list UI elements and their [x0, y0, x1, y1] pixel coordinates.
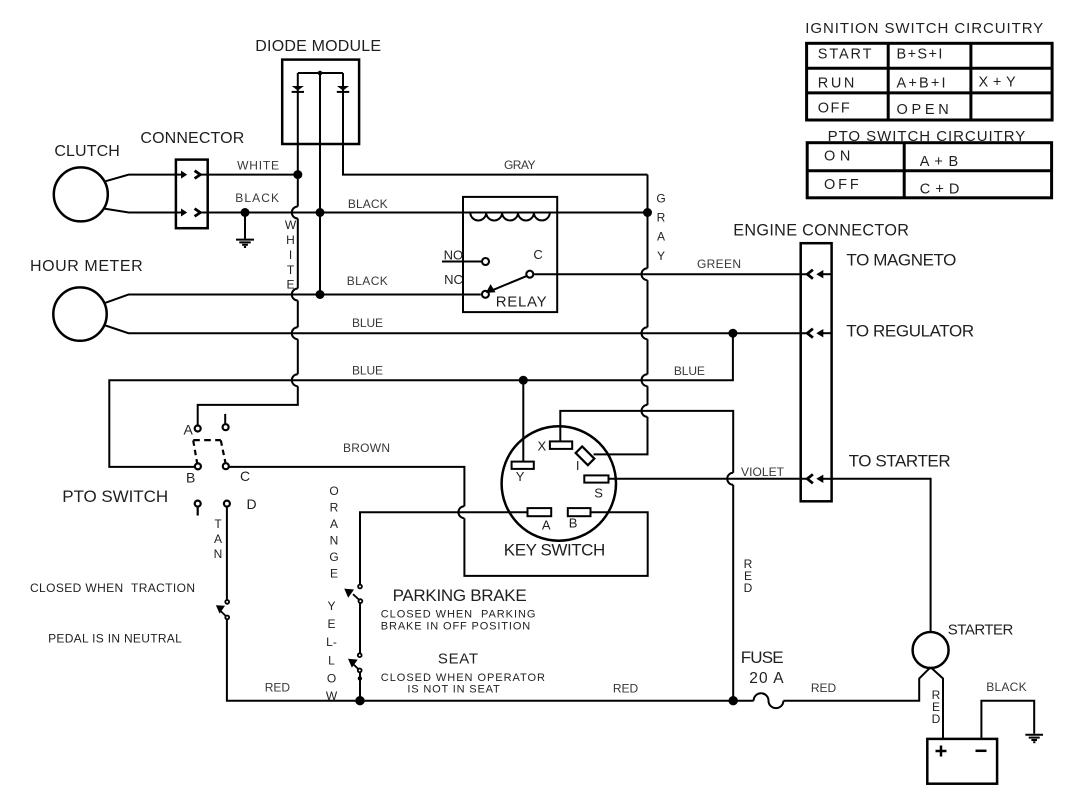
svg-text:GREEN: GREEN: [697, 257, 741, 271]
key terminal A: [528, 508, 552, 516]
wirelabel RED vertical fuse: [744, 557, 753, 595]
diode D2: [337, 86, 349, 93]
node black/diode mid: [316, 208, 325, 217]
svg-text:20 A: 20 A: [749, 670, 784, 687]
svg-text:Y: Y: [516, 469, 525, 484]
relay coil: [470, 213, 550, 221]
svg-text:B: B: [569, 516, 578, 531]
wire fuse to starter: [783, 667, 930, 701]
wire relay NO stub: [442, 261, 481, 263]
wire relay C to GREEN: [534, 273, 807, 275]
wire battery minus to ground: [981, 701, 1034, 739]
wire hour meter bottom lead / BLUE to regulator: [104, 325, 807, 333]
svg-text:PEDAL IS IN NEUTRAL: PEDAL IS IN NEUTRAL: [48, 632, 182, 646]
svg-text:L: L: [328, 654, 335, 668]
svg-text:BLACK: BLACK: [235, 191, 279, 205]
svg-text:C + D: C + D: [920, 182, 960, 198]
svg-text:GRAY: GRAY: [504, 158, 536, 172]
table cells pto: [824, 149, 959, 198]
connector box: [176, 160, 208, 229]
wire starter to battery plus: [931, 667, 943, 739]
ground symbol left: [236, 240, 254, 247]
svg-text:NC: NC: [444, 272, 463, 287]
JUNCTION-DOTS: [241, 71, 738, 706]
PTO arm C dashed: [221, 440, 226, 462]
svg-text:X+Y: X+Y: [979, 75, 1017, 91]
PTO terminal D: [224, 501, 230, 507]
svg-text:CLUTCH: CLUTCH: [54, 143, 119, 160]
wire violet through connector to starter: [832, 479, 931, 633]
svg-text:RED: RED: [811, 681, 837, 695]
svg-text:WHITE: WHITE: [237, 158, 279, 172]
svg-text:CONNECTOR: CONNECTOR: [140, 130, 244, 147]
svg-text:PTO SWITCH CIRCUITRY: PTO SWITCH CIRCUITRY: [828, 128, 1026, 145]
table cells ignition: [818, 46, 1016, 118]
svg-text:A: A: [184, 422, 194, 438]
wirelabel RED vertical battery: [932, 688, 941, 726]
diode module box: [282, 60, 359, 144]
PTO terminal C: [223, 463, 229, 469]
hop white-over-black: [292, 207, 298, 219]
svg-text:CLOSED WHEN OPERATOR: CLOSED WHEN OPERATOR: [381, 672, 545, 684]
svg-text:S: S: [594, 486, 603, 501]
PTO terminal top2: [223, 424, 229, 430]
wire PTO stub2: [224, 414, 226, 424]
traction switch: [216, 600, 229, 619]
wire WHITE horizontal: [208, 174, 298, 176]
PTO terminal stub3: [195, 501, 201, 516]
wire clutch bottom lead: [104, 209, 176, 213]
svg-text:Y: Y: [327, 599, 335, 613]
svg-text:ENGINE CONNECTOR: ENGINE CONNECTOR: [733, 221, 909, 239]
svg-text:E: E: [327, 617, 335, 631]
connector arrow pair top: [176, 171, 208, 179]
svg-text:RUN: RUN: [818, 75, 855, 91]
relay box: [463, 197, 557, 312]
svg-text:CLOSED WHEN TRACTION: CLOSED WHEN TRACTION: [30, 581, 195, 595]
svg-text:A + B: A + B: [920, 154, 958, 170]
wire BLACK horizontal: [208, 212, 648, 214]
wire key X branch: [560, 411, 733, 701]
svg-text:B: B: [186, 470, 195, 486]
relay NC contact: [482, 291, 489, 298]
svg-text:BROWN: BROWN: [343, 441, 390, 455]
svg-text:E: E: [330, 567, 338, 581]
svg-text:SEAT: SEAT: [438, 651, 478, 668]
svg-text:A: A: [214, 532, 222, 546]
svg-text:A: A: [330, 517, 338, 531]
node white/diode1: [293, 170, 302, 179]
svg-text:W: W: [285, 218, 297, 232]
PTO terminal B: [195, 463, 201, 469]
svg-text:CLOSED WHEN PARKING: CLOSED WHEN PARKING: [381, 608, 536, 620]
svg-text:STARTER: STARTER: [948, 621, 1014, 638]
svg-text:B+S+I: B+S+I: [897, 46, 943, 62]
hop gray-over-xwire: [642, 405, 648, 417]
wire diode left vertical (white): [198, 73, 298, 426]
svg-text:IGNITION SWITCH CIRCUITRY: IGNITION SWITCH CIRCUITRY: [805, 20, 1043, 37]
svg-text:RELAY: RELAY: [496, 293, 547, 310]
svg-text:I: I: [576, 458, 580, 473]
hop white-over-blue2: [292, 374, 298, 386]
fuse element: [754, 693, 784, 708]
wire diode module top bus: [298, 72, 343, 74]
hop gray-over-blue2: [642, 374, 648, 386]
svg-text:IS NOT IN SEAT: IS NOT IN SEAT: [407, 683, 500, 695]
svg-text:START: START: [818, 46, 872, 62]
starter circle: [913, 632, 949, 668]
svg-text:W: W: [326, 689, 338, 703]
svg-text:BLUE: BLUE: [352, 364, 383, 378]
wire parking brake to seat: [359, 603, 361, 653]
connector arrow pair bottom: [176, 209, 208, 217]
wirelabel GRAY vertical: [656, 191, 665, 263]
node blue2/Y: [519, 376, 528, 385]
wire key A to orange corner: [360, 512, 528, 584]
svg-text:NO: NO: [444, 248, 464, 263]
clutch circle: [54, 167, 108, 221]
svg-text:BLACK: BLACK: [347, 274, 388, 288]
svg-text:FUSE: FUSE: [741, 648, 784, 667]
relay NO contact: [482, 258, 489, 265]
node diode top: [318, 71, 323, 76]
svg-text:T: T: [214, 517, 222, 531]
wire seat to bottom red: [359, 672, 361, 700]
svg-text:C: C: [533, 247, 542, 262]
ignition table frame: [807, 43, 1053, 120]
svg-text:D: D: [247, 496, 257, 512]
key switch circle: [502, 426, 616, 540]
wire diode middle vertical: [319, 73, 321, 295]
key terminal S: [584, 475, 608, 482]
svg-text:HOUR METER: HOUR METER: [30, 258, 143, 275]
node yellow/red: [355, 696, 364, 705]
engine connector box: [801, 243, 832, 501]
PTO arm B dashed: [193, 440, 197, 462]
wirelabel ORANGE vertical: [329, 484, 338, 581]
engine connector arrows starter: [807, 474, 831, 483]
battery box: [927, 739, 997, 784]
node blue branch: [728, 329, 737, 338]
svg-text:BLUE: BLUE: [352, 316, 383, 330]
node black/ground: [241, 208, 250, 217]
diode D1: [292, 86, 304, 93]
svg-text:N: N: [214, 547, 223, 561]
wire GRAY vertical: [594, 175, 648, 455]
svg-text:BLUE: BLUE: [674, 364, 705, 378]
svg-text:TO MAGNETO: TO MAGNETO: [846, 251, 956, 270]
svg-text:OFF: OFF: [824, 177, 859, 193]
hour meter circle: [53, 287, 106, 340]
hop gray-over-green: [642, 268, 648, 280]
svg-text:C: C: [240, 468, 250, 484]
hop white-over-black2: [292, 289, 298, 301]
svg-text:T: T: [287, 263, 295, 277]
key terminal B: [568, 508, 591, 516]
svg-text:DIODE MODULE: DIODE MODULE: [255, 38, 381, 55]
svg-text:R: R: [330, 501, 339, 515]
svg-text:L-: L-: [326, 635, 337, 649]
svg-text:G: G: [329, 550, 338, 564]
svg-text:I: I: [289, 248, 292, 262]
svg-text:D: D: [744, 581, 753, 595]
svg-text:VIOLET: VIOLET: [741, 465, 785, 479]
svg-text:BLACK: BLACK: [348, 197, 388, 211]
svg-text:PTO SWITCH: PTO SWITCH: [62, 487, 168, 506]
battery minus sign: [976, 750, 987, 753]
WIRES-GROUP: [104, 73, 1034, 739]
node xwire/red: [729, 696, 738, 705]
PTO gang dashed link: [193, 439, 221, 441]
svg-text:PARKING BRAKE: PARKING BRAKE: [393, 586, 527, 605]
svg-text:A+B+I: A+B+I: [897, 75, 946, 91]
battery plus sign: [936, 746, 947, 757]
hop white-over-blue: [292, 327, 298, 339]
wire key S / VIOLET: [609, 478, 807, 480]
svg-text:H: H: [286, 233, 295, 247]
wire traction to bottom red: [227, 620, 754, 701]
seat switch: [348, 653, 362, 680]
wirelabel YELLOW vertical: [326, 599, 338, 703]
hop brownloop-over-ABwire: [458, 506, 464, 518]
wirelabel WHITE vertical: [285, 218, 297, 292]
svg-text:A: A: [542, 518, 551, 533]
svg-text:R: R: [657, 211, 666, 225]
key terminal Y: [512, 462, 534, 469]
parking brake switch: [344, 585, 362, 603]
engine connector arrows magneto: [807, 270, 831, 279]
PTO terminal A: [195, 426, 201, 432]
svg-text:E: E: [286, 278, 294, 292]
svg-text:N: N: [330, 534, 339, 548]
svg-text:KEY SWITCH: KEY SWITCH: [504, 540, 606, 559]
TABLES: [807, 43, 1053, 198]
wire clutch top lead: [104, 175, 176, 182]
svg-text:RED: RED: [265, 681, 291, 695]
svg-text:OFF: OFF: [818, 101, 850, 117]
svg-text:O: O: [327, 672, 336, 686]
relay C contact: [526, 271, 533, 278]
svg-text:X: X: [538, 439, 547, 454]
wire BLUE2: [109, 333, 733, 467]
node black/gray: [643, 208, 652, 217]
wire key Y branch: [522, 380, 524, 461]
wire diode right vertical + GRAY top run: [343, 73, 648, 175]
svg-text:BRAKE IN OFF POSITION: BRAKE IN OFF POSITION: [381, 621, 530, 633]
svg-text:O: O: [329, 484, 338, 498]
node black2/diode mid: [316, 290, 325, 299]
svg-text:A: A: [657, 230, 665, 244]
svg-text:D: D: [932, 712, 941, 726]
svg-text:RED: RED: [613, 682, 639, 696]
engine connector arrows regulator: [807, 329, 831, 338]
hop gray-over-blue: [642, 327, 648, 339]
relay arm arrowhead: [486, 284, 496, 293]
svg-text:BLACK: BLACK: [986, 680, 1026, 694]
wire ground tap: [244, 213, 246, 239]
svg-text:Y: Y: [657, 249, 665, 263]
relay arm: [488, 276, 526, 292]
svg-text:TO STARTER: TO STARTER: [849, 451, 951, 470]
wire traction D lead: [226, 507, 228, 600]
ground symbol battery: [1025, 735, 1043, 742]
svg-text:TO REGULATOR: TO REGULATOR: [846, 321, 974, 340]
wire hour meter top lead / BLACK2 to relay NC: [104, 295, 481, 304]
wire BROWN C-to-B-loop: [228, 467, 647, 576]
key terminal I: [576, 446, 595, 465]
wirelabel TAN vertical: [214, 517, 223, 561]
key terminal X: [550, 441, 572, 449]
svg-text:G: G: [656, 191, 665, 205]
hop xwire-over-violet: [727, 473, 733, 485]
pto table frame: [807, 143, 1051, 198]
